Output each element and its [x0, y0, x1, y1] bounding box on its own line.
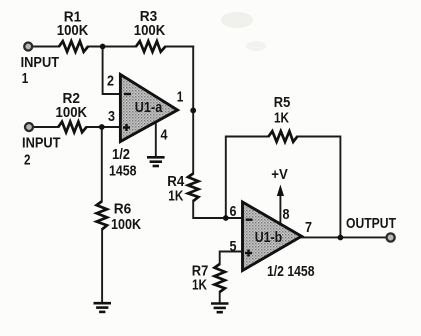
- svg-text:5: 5: [230, 238, 237, 255]
- svg-text:1: 1: [22, 70, 29, 87]
- svg-text:100K: 100K: [56, 104, 88, 121]
- svg-text:U1-a: U1-a: [135, 99, 163, 116]
- svg-text:100K: 100K: [111, 216, 141, 233]
- svg-text:7: 7: [305, 219, 312, 236]
- svg-text:R6: R6: [114, 201, 132, 218]
- svg-text:U1-b: U1-b: [255, 229, 283, 246]
- svg-text:1458: 1458: [109, 163, 137, 180]
- svg-text:2: 2: [24, 152, 31, 169]
- svg-text:INPUT: INPUT: [21, 54, 60, 71]
- svg-text:3: 3: [108, 108, 115, 125]
- svg-text:OUTPUT: OUTPUT: [346, 215, 396, 232]
- svg-text:8: 8: [283, 206, 290, 223]
- svg-text:1/2 1458: 1/2 1458: [267, 263, 315, 280]
- svg-text:INPUT: INPUT: [22, 135, 61, 152]
- svg-text:1K: 1K: [274, 110, 289, 127]
- svg-text:100K: 100K: [57, 22, 89, 39]
- svg-text:R5: R5: [274, 94, 291, 111]
- svg-text:1: 1: [177, 89, 184, 106]
- svg-text:1K: 1K: [168, 188, 183, 205]
- svg-text:4: 4: [161, 127, 169, 144]
- svg-text:1K: 1K: [192, 277, 207, 294]
- svg-text:6: 6: [230, 203, 237, 220]
- svg-text:2: 2: [107, 73, 114, 90]
- svg-text:100K: 100K: [134, 22, 166, 39]
- svg-text:+V: +V: [271, 166, 288, 183]
- svg-text:1/2: 1/2: [112, 146, 130, 163]
